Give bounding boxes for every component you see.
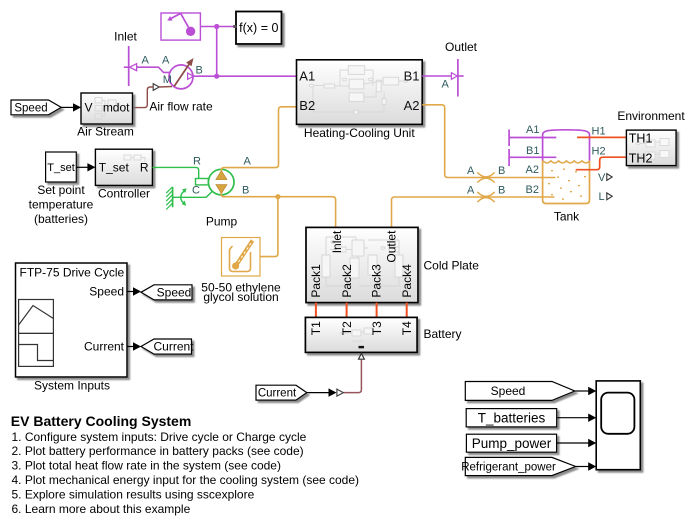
svg-text:V: V bbox=[85, 101, 93, 115]
svg-text:1. Configure system inputs: Dr: 1. Configure system inputs: Drive cycle … bbox=[12, 430, 307, 444]
Current goto tag bbox=[141, 339, 194, 354]
Scope block bbox=[596, 381, 640, 470]
svg-text:V: V bbox=[598, 172, 606, 184]
Set point temperature (batteries) label bbox=[29, 183, 94, 226]
svg-text:A: A bbox=[142, 55, 150, 67]
wire HCU B1 to outlet bbox=[422, 75, 451, 77]
L port triangle bbox=[607, 193, 612, 200]
svg-text:Pack3: Pack3 bbox=[369, 264, 383, 298]
Speed from tag (scope) bbox=[465, 382, 575, 401]
wire junction to glycol block bbox=[260, 197, 278, 257]
svg-text:Air Stream: Air Stream bbox=[77, 125, 134, 139]
glycol properties block bbox=[222, 238, 261, 277]
tank body orange bottom bbox=[543, 161, 590, 204]
T_set source block bbox=[46, 152, 77, 182]
fan (moist air source) circle bbox=[169, 65, 193, 89]
Battery block bbox=[305, 317, 417, 352]
pump circle bbox=[208, 169, 234, 195]
wire stub through inlet bar bbox=[124, 66, 130, 68]
svg-text:Environment: Environment bbox=[617, 109, 685, 123]
pump triangle down bbox=[216, 185, 227, 194]
outlet open triangle bbox=[451, 73, 457, 80]
svg-text:Cold Plate: Cold Plate bbox=[424, 258, 480, 272]
svg-text:A: A bbox=[442, 79, 450, 91]
wire H1 to TH1 bbox=[577, 136, 626, 138]
svg-text:A: A bbox=[244, 156, 252, 168]
svg-text:Controller: Controller bbox=[98, 186, 150, 200]
svg-text:T2: T2 bbox=[340, 321, 354, 335]
svg-text:6. Learn more about this examp: 6. Learn more about this example bbox=[12, 502, 191, 516]
Inlet open triangle bbox=[130, 64, 137, 71]
Controller block bbox=[95, 149, 152, 185]
svg-text:A: A bbox=[162, 55, 170, 67]
arrow T_batteries to scope bbox=[557, 414, 597, 422]
arrow current tag to converter bbox=[307, 388, 337, 396]
V port triangle bbox=[607, 174, 612, 181]
svg-text:Current: Current bbox=[153, 340, 194, 354]
tank liquid wavy line bbox=[543, 161, 590, 163]
outlet port bar bbox=[457, 59, 459, 97]
svg-text:B: B bbox=[498, 165, 505, 177]
svg-text:T_batteries: T_batteries bbox=[478, 410, 546, 425]
svg-text:Speed: Speed bbox=[157, 285, 192, 299]
wire Controller R to pump shaft (green) bbox=[152, 167, 198, 179]
Speed from tag (top left) bbox=[11, 100, 61, 115]
Cold Plate block bbox=[306, 227, 418, 302]
svg-text:Speed: Speed bbox=[89, 285, 124, 299]
svg-text:Refrigerant_power: Refrigerant_power bbox=[461, 462, 556, 474]
pump triangle up bbox=[216, 171, 227, 180]
wire fan B to HCU A1 bbox=[193, 75, 296, 77]
wire HCU A2 to tank A2 bbox=[422, 105, 555, 178]
tank port stub B1 bbox=[509, 149, 556, 166]
svg-text:Outlet: Outlet bbox=[445, 40, 478, 54]
svg-text:T4: T4 bbox=[400, 321, 414, 335]
Environment block bbox=[626, 130, 676, 166]
arrow Speed to Air Stream bbox=[61, 103, 81, 111]
wire mdot to M (physical signal) bbox=[133, 87, 154, 108]
svg-text:B2: B2 bbox=[299, 98, 315, 113]
svg-text:System Inputs: System Inputs bbox=[34, 379, 110, 393]
tank liquid dots bbox=[548, 169, 586, 200]
svg-text:Battery: Battery bbox=[424, 327, 462, 341]
wire current to battery (physical signal) bbox=[343, 360, 361, 393]
svg-text:B1: B1 bbox=[526, 145, 539, 157]
svg-text:FTP-75 Drive Cycle: FTP-75 Drive Cycle bbox=[20, 266, 125, 280]
rotational reference clamp bbox=[166, 187, 186, 210]
svg-text:Pack1: Pack1 bbox=[309, 264, 323, 298]
junction dot pump B bbox=[275, 194, 280, 199]
svg-text:A1: A1 bbox=[526, 124, 539, 136]
fan port M triangle bbox=[153, 84, 159, 91]
svg-text:M: M bbox=[163, 74, 172, 86]
svg-text:B2: B2 bbox=[526, 184, 539, 196]
wire H2 to TH2 bbox=[576, 157, 627, 170]
svg-text:C: C bbox=[192, 185, 200, 197]
conversion triangle bbox=[337, 389, 343, 396]
fan brown arrow bbox=[174, 58, 193, 86]
arrow T_set to Controller bbox=[76, 163, 95, 171]
svg-text:A: A bbox=[467, 165, 475, 177]
svg-text:temperature: temperature bbox=[29, 197, 94, 211]
svg-text:B: B bbox=[242, 185, 249, 197]
Inlet port bar bbox=[128, 46, 130, 86]
svg-text:Pump: Pump bbox=[206, 214, 238, 228]
T_batteries from tag bbox=[466, 409, 557, 427]
wire pump C to clamp bbox=[173, 191, 213, 197]
svg-text:5. Explore simulation results: 5. Explore simulation results using ssce… bbox=[12, 487, 255, 501]
Speed goto tag bbox=[141, 285, 192, 300]
svg-text:L: L bbox=[599, 191, 605, 203]
fan port B triangle bbox=[188, 73, 194, 79]
svg-text:H2: H2 bbox=[592, 146, 606, 158]
svg-text:B: B bbox=[196, 65, 203, 77]
Pump_power from tag bbox=[466, 434, 556, 452]
tank port stub A1 bbox=[509, 130, 556, 147]
svg-text:Inlet: Inlet bbox=[330, 230, 344, 253]
thermal connector Pack3-T3 bbox=[376, 303, 378, 318]
svg-text:T3: T3 bbox=[370, 321, 384, 335]
svg-text:3. Plot total heat flow rate i: 3. Plot total heat flow rate in the syst… bbox=[12, 459, 281, 473]
arrow current out bbox=[127, 342, 141, 350]
svg-text:Speed: Speed bbox=[491, 384, 526, 398]
svg-text:Pump_power: Pump_power bbox=[472, 436, 552, 451]
battery input triangle bbox=[359, 353, 365, 359]
Air Stream block bbox=[81, 93, 133, 124]
restriction 2 symbol bbox=[477, 192, 494, 202]
tank body purple top bbox=[543, 130, 590, 161]
wire stub through outlet bar bbox=[458, 75, 464, 77]
svg-text:Heating-Cooling Unit: Heating-Cooling Unit bbox=[304, 126, 415, 140]
restriction 1 symbol bbox=[477, 172, 494, 182]
svg-text:(batteries): (batteries) bbox=[34, 212, 88, 226]
thermal connector Pack2-T2 bbox=[346, 303, 348, 318]
svg-text:Inlet: Inlet bbox=[114, 30, 137, 44]
thermal connector Pack4-T4 bbox=[406, 303, 408, 318]
thermal connector Pack1-T1 bbox=[315, 303, 317, 318]
pump shaft rect bbox=[196, 179, 209, 185]
svg-text:H1: H1 bbox=[592, 126, 606, 138]
svg-text:A: A bbox=[467, 185, 475, 197]
svg-text:Current: Current bbox=[84, 340, 125, 354]
arrow speed out bbox=[127, 287, 141, 295]
svg-text:T_set: T_set bbox=[47, 162, 75, 174]
svg-text:Pack4: Pack4 bbox=[400, 264, 414, 298]
svg-text:TH2: TH2 bbox=[629, 151, 653, 165]
svg-text:T1: T1 bbox=[309, 321, 323, 335]
Heating-Cooling Unit block bbox=[297, 60, 423, 125]
glycol label bbox=[201, 280, 281, 304]
wire sensor to solver bbox=[201, 24, 235, 29]
svg-text:TH1: TH1 bbox=[629, 131, 653, 145]
wire HCU B2 to pump A (orange) bbox=[221, 107, 296, 171]
wire Inlet to fan A bbox=[137, 67, 170, 72]
svg-text:Current: Current bbox=[258, 388, 297, 400]
arrow Refrigerant_power to scope bbox=[576, 462, 597, 470]
arrow Pump_power to scope bbox=[557, 439, 597, 447]
System Inputs block bbox=[16, 263, 128, 377]
svg-text:Tank: Tank bbox=[554, 209, 580, 223]
svg-text:R: R bbox=[193, 156, 201, 168]
svg-text:B: B bbox=[498, 185, 505, 197]
arrow speed to scope bbox=[575, 387, 596, 395]
sensor block (moist air measurement) bbox=[161, 13, 200, 40]
svg-text:A1: A1 bbox=[299, 69, 315, 84]
svg-text:2. Plot battery performance in: 2. Plot battery performance in battery p… bbox=[12, 444, 304, 458]
svg-text:mdot: mdot bbox=[103, 101, 130, 115]
svg-text:Outlet: Outlet bbox=[385, 230, 399, 263]
svg-text:Speed: Speed bbox=[14, 102, 47, 114]
svg-text:Air flow rate: Air flow rate bbox=[149, 100, 213, 114]
wire M triangle to fan bbox=[159, 86, 172, 89]
svg-text:Pack2: Pack2 bbox=[340, 264, 354, 298]
svg-text:4. Plot mechanical energy inpu: 4. Plot mechanical energy input for the … bbox=[12, 473, 360, 487]
svg-text:f(x) = 0: f(x) = 0 bbox=[239, 21, 278, 35]
svg-text:B1: B1 bbox=[404, 69, 420, 84]
svg-text:A2: A2 bbox=[404, 98, 420, 113]
port label I bbox=[359, 346, 365, 348]
Refrigerant_power from tag bbox=[461, 457, 575, 475]
Current from tag bbox=[256, 385, 307, 400]
svg-text:glycol solution: glycol solution bbox=[203, 290, 278, 304]
wire cold plate outlet to tank B2 bbox=[392, 197, 555, 227]
svg-text:EV Battery Cooling System: EV Battery Cooling System bbox=[11, 413, 192, 429]
solver block f(x)=0 bbox=[233, 12, 281, 45]
svg-text:A2: A2 bbox=[526, 164, 539, 176]
svg-text:R: R bbox=[140, 160, 149, 174]
svg-text:Set point: Set point bbox=[37, 183, 85, 197]
wire pump B to cold plate inlet bbox=[221, 193, 335, 227]
wire junction vertical bbox=[214, 27, 219, 79]
svg-text:T_set: T_set bbox=[99, 160, 130, 174]
